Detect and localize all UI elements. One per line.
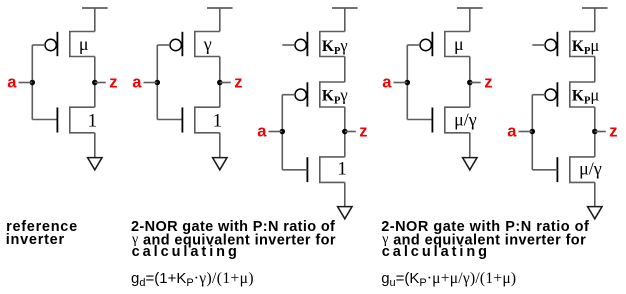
svg-text:μ/γ: μ/γ xyxy=(454,110,477,130)
svg-text:KPγ: KPγ xyxy=(322,36,348,57)
svg-text:a: a xyxy=(257,122,267,140)
svg-text:1: 1 xyxy=(337,159,347,180)
svg-text:a: a xyxy=(7,73,17,91)
svg-text:z: z xyxy=(109,73,117,91)
svg-text:μ: μ xyxy=(454,34,464,54)
svg-text:μ/γ: μ/γ xyxy=(579,159,602,179)
svg-text:γ: γ xyxy=(203,34,212,54)
svg-text:μ: μ xyxy=(79,34,89,54)
svg-text:a: a xyxy=(507,122,517,140)
svg-text:z: z xyxy=(234,73,242,91)
svg-text:1: 1 xyxy=(213,110,223,131)
svg-text:z: z xyxy=(359,122,367,140)
svg-text:KPμ: KPμ xyxy=(572,36,599,57)
svg-text:a: a xyxy=(382,73,392,91)
svg-text:KPμ: KPμ xyxy=(572,86,599,107)
svg-text:a: a xyxy=(132,73,142,91)
svg-text:1: 1 xyxy=(88,110,98,131)
svg-text:KPγ: KPγ xyxy=(322,86,348,107)
svg-text:z: z xyxy=(484,73,492,91)
svg-text:z: z xyxy=(609,122,617,140)
